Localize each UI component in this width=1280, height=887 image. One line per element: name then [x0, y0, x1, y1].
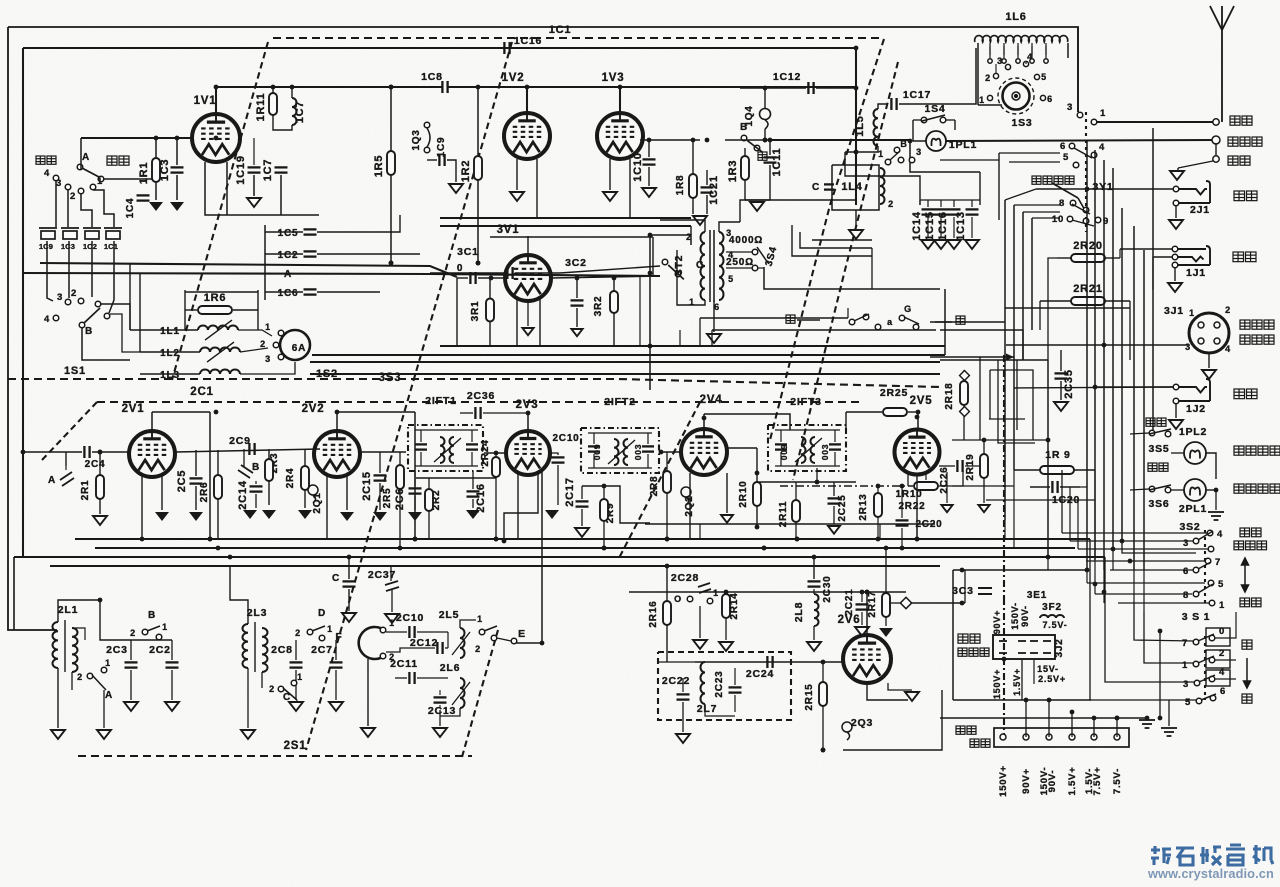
wire — [1133, 570, 1135, 602]
junction — [900, 546, 905, 551]
chinese label dixian — [1228, 156, 1250, 165]
wire — [1077, 27, 1079, 112]
contact 1Q3 — [424, 122, 430, 128]
junction — [1102, 590, 1107, 595]
junction — [389, 261, 394, 266]
wire — [725, 618, 727, 640]
wire — [261, 672, 263, 688]
capacitor 2C-ift1b — [466, 444, 478, 449]
wire — [1118, 602, 1209, 604]
wire vertical right of 1C12 — [855, 50, 857, 205]
wire — [845, 146, 878, 152]
chinese label erji — [1234, 191, 1257, 201]
wire — [1025, 700, 1027, 737]
contact 3 — [65, 184, 71, 190]
junction — [228, 555, 233, 560]
contact 3S6 — [1165, 487, 1171, 493]
wire 3V1 cathode lead — [539, 299, 541, 346]
contact — [291, 680, 297, 686]
wire — [240, 348, 268, 352]
wire — [460, 620, 476, 628]
chinese label sanbo — [107, 156, 129, 165]
wire — [1047, 300, 1049, 360]
wire — [265, 253, 303, 255]
contact — [913, 324, 919, 330]
junction — [526, 411, 531, 416]
wire top border bus — [8, 27, 1078, 112]
lever — [1074, 148, 1092, 158]
dashed slant unit2 left — [42, 402, 97, 460]
wire long bus y263 — [40, 263, 457, 277]
wire — [1144, 612, 1193, 663]
wire tap 1L6 — [1017, 46, 1019, 58]
wire — [846, 411, 882, 413]
wire — [877, 517, 879, 539]
inductor 1L6 — [975, 36, 1068, 42]
trimmer 1C2 — [83, 228, 101, 239]
wire — [712, 329, 936, 331]
wire — [855, 152, 857, 165]
dashed chassis unit2 bottom — [78, 755, 472, 757]
wire — [460, 412, 473, 414]
wire — [816, 87, 856, 89]
wire 3V1 plate bus — [490, 236, 653, 238]
wire plate bus to 1C8 — [216, 86, 442, 88]
wire — [477, 87, 479, 156]
wire — [415, 429, 478, 431]
wire — [527, 413, 529, 431]
wire long line to antenna post — [946, 140, 1216, 141]
wire — [1086, 570, 1088, 583]
contact 2 — [1209, 657, 1215, 663]
cap 3C3 — [978, 588, 992, 594]
contact 1S4 — [940, 117, 946, 123]
wire — [769, 165, 771, 200]
contact 3S5 — [1165, 431, 1171, 437]
junction — [214, 136, 219, 141]
wire — [940, 200, 942, 207]
slug — [452, 632, 470, 655]
resistor 1R5 — [387, 151, 395, 175]
cap 2C37 tilted — [385, 581, 399, 591]
junction — [724, 590, 729, 595]
junction — [763, 86, 768, 91]
wire — [588, 432, 652, 434]
contact 4b — [53, 315, 59, 321]
wire — [472, 499, 474, 508]
capacitor 1C-1L4 — [824, 184, 834, 189]
ground — [642, 188, 656, 197]
trimmer A — [60, 472, 74, 486]
lever — [1072, 204, 1090, 214]
wire — [979, 172, 981, 205]
wire — [581, 486, 583, 499]
wire — [1105, 257, 1120, 259]
capacitor 2C22 — [677, 694, 690, 699]
wire — [780, 452, 782, 466]
inductor 2L5 — [460, 628, 465, 658]
wire — [390, 175, 392, 263]
junction — [489, 276, 494, 281]
capacitor B — [507, 267, 512, 279]
wire 1L4 box — [832, 165, 879, 210]
ground — [575, 528, 589, 537]
capacitor 1C7 — [275, 167, 288, 172]
contact 2J1 — [1173, 200, 1179, 206]
chinese label huatong — [1233, 252, 1256, 262]
ground — [828, 526, 840, 534]
junction — [216, 546, 221, 551]
lever — [484, 626, 497, 631]
crystal 3Y1 — [1052, 183, 1086, 212]
contact 1J1 — [1172, 254, 1178, 260]
plug pin — [1018, 640, 1026, 642]
wire grid node 1V1 — [81, 137, 192, 139]
capacitor 1C5 — [304, 229, 317, 234]
wire bus vertical — [1143, 250, 1145, 570]
wire — [489, 278, 491, 299]
inductor 2L3a — [242, 624, 248, 668]
wire — [1094, 470, 1096, 560]
resistor 2R4 — [301, 466, 309, 490]
node diamond — [900, 597, 911, 608]
lever — [312, 626, 325, 631]
junction — [1092, 716, 1097, 721]
wire — [758, 267, 764, 269]
contact B — [142, 629, 148, 635]
wire — [80, 138, 82, 170]
chinese label shoufa — [1240, 528, 1261, 537]
wire — [939, 465, 955, 467]
dashed gang 3S2 — [1204, 530, 1206, 605]
resistor 1R1 — [152, 158, 160, 182]
ground — [941, 505, 952, 512]
ground — [124, 702, 138, 711]
ground — [934, 240, 948, 249]
contact G — [899, 315, 905, 321]
wire 2V6 grid line — [695, 661, 843, 663]
lamp 2PL1 — [1184, 479, 1206, 501]
resistor 1R11 — [269, 93, 277, 115]
wire — [417, 677, 448, 679]
wire — [1060, 350, 1062, 371]
wire — [415, 465, 478, 467]
wire — [253, 138, 255, 165]
tube 2V3 — [506, 431, 550, 475]
wire — [734, 695, 736, 712]
wire — [240, 86, 310, 88]
dashed gang link 1S3 — [1085, 112, 1087, 232]
wire — [629, 159, 631, 218]
wire bus vertical — [1094, 150, 1096, 560]
wire — [813, 589, 815, 594]
wire — [253, 175, 255, 196]
wire — [536, 159, 538, 218]
contact A pivot — [77, 164, 83, 170]
junction — [494, 451, 499, 456]
resistor 1R6 — [198, 306, 232, 314]
ground — [342, 613, 356, 622]
wire — [176, 138, 178, 165]
wire — [940, 217, 942, 238]
wire — [795, 482, 797, 500]
wire — [1060, 486, 1080, 488]
wire long bus y273 — [23, 273, 660, 276]
inductor ift3a — [801, 437, 806, 463]
junction — [960, 601, 965, 606]
wire — [901, 528, 903, 548]
junction — [795, 537, 800, 542]
wire — [944, 289, 946, 355]
wire — [652, 237, 654, 276]
wire — [484, 452, 506, 454]
contact E — [511, 638, 517, 644]
resistor 2R17 — [882, 593, 890, 617]
ground — [262, 510, 276, 519]
wire — [734, 668, 736, 685]
ground — [721, 515, 733, 523]
wire — [1071, 712, 1073, 737]
wire — [209, 412, 211, 539]
junction — [1115, 716, 1120, 721]
junction — [755, 471, 760, 476]
tube 2V5 — [895, 430, 940, 475]
capacitor 1C13 — [966, 209, 979, 214]
capacitor 2C9 — [249, 443, 254, 455]
wire — [130, 640, 132, 660]
capacitor 1C20 — [1052, 481, 1057, 493]
wire bus y539 — [75, 538, 1090, 540]
contact tap — [988, 59, 992, 63]
contact 10 — [1067, 216, 1073, 222]
wire — [1004, 520, 1006, 539]
lever — [890, 151, 900, 160]
wire — [477, 180, 479, 263]
capacitor 1C15 — [935, 209, 948, 214]
capacitor 2C25 — [828, 498, 841, 503]
junction — [795, 537, 800, 542]
wire — [938, 470, 963, 486]
wire — [1005, 189, 1036, 200]
ground — [693, 216, 707, 225]
wire — [141, 475, 143, 539]
capacitor 2C-ift2a — [588, 446, 600, 451]
watermark glyph 5 — [1253, 845, 1273, 864]
dashed box 2IFT2 — [581, 428, 659, 473]
lever — [92, 675, 106, 690]
wire tap — [989, 43, 991, 55]
wire drop 2 — [81, 194, 92, 227]
wire bus vertical — [1047, 360, 1049, 557]
junction — [1046, 438, 1051, 443]
junction — [1128, 559, 1133, 564]
chinese label tianxianzhu — [1228, 137, 1262, 146]
resistor 2R20 — [1071, 254, 1105, 262]
capacitor 2C21 — [856, 604, 869, 609]
ground — [750, 202, 764, 211]
wire 3V1 grid right — [551, 276, 660, 278]
junction — [98, 450, 103, 455]
capacitor 2C35 — [1055, 373, 1068, 378]
wire — [184, 290, 186, 330]
wire — [335, 670, 337, 700]
ground — [1054, 402, 1068, 411]
wire — [129, 263, 131, 330]
wire — [1112, 548, 1114, 570]
resistor 2R18 — [960, 381, 968, 405]
wire bus vertical — [1112, 168, 1114, 548]
capacitor 2C14 — [250, 486, 263, 491]
junction — [1115, 716, 1120, 721]
junction — [1102, 343, 1107, 348]
wire — [834, 452, 836, 466]
wire — [1086, 140, 1088, 150]
wire — [295, 640, 297, 660]
wire — [57, 668, 59, 700]
inductor ift3b — [811, 437, 816, 463]
contact o — [687, 596, 693, 602]
plug pin — [999, 640, 1007, 642]
junction — [335, 410, 340, 415]
wire — [140, 351, 200, 353]
dashed chassis 1C1 top — [273, 37, 884, 39]
wire IFT3 out — [845, 412, 847, 430]
wire — [1206, 489, 1216, 491]
wire — [917, 412, 919, 429]
wire bus y308 — [1005, 307, 1130, 309]
wire — [847, 308, 849, 318]
wire bus y548 — [95, 547, 1075, 549]
wire — [226, 162, 228, 215]
rotary 1S3 — [998, 78, 1034, 114]
watermark glyph 1 — [1151, 846, 1171, 865]
chinese label mic1 — [1240, 320, 1274, 329]
wire — [399, 452, 401, 465]
dashed chassis unit2 top — [97, 401, 860, 403]
contact — [875, 324, 881, 330]
junction — [982, 438, 987, 443]
wire — [946, 119, 955, 121]
contact — [1083, 218, 1089, 224]
wire 3V1 cathode lead — [516, 299, 518, 346]
contact tap — [1030, 59, 1034, 63]
capacitor 2C36 — [475, 407, 480, 419]
wire — [361, 451, 406, 453]
wire — [650, 235, 691, 245]
wire — [557, 465, 559, 505]
contact 1J2 — [1173, 384, 1179, 390]
wire plate to IFT3 — [704, 414, 790, 430]
junction — [398, 546, 403, 551]
wire — [877, 486, 879, 493]
wire — [576, 308, 578, 327]
wire — [65, 466, 67, 470]
contact 1 — [479, 629, 485, 635]
wire — [1103, 592, 1105, 603]
wire — [337, 411, 415, 413]
wire — [725, 139, 770, 141]
junction — [647, 138, 652, 143]
contact 4 — [1209, 676, 1215, 682]
contact 4 — [53, 175, 59, 181]
capacitor 1C16 — [504, 42, 509, 54]
junction — [476, 85, 481, 90]
junction — [1085, 187, 1090, 192]
wire — [346, 475, 348, 510]
ground — [385, 614, 399, 623]
wire — [1057, 257, 1071, 259]
capacitor 2C-ift2b — [642, 446, 654, 451]
wire — [954, 120, 956, 130]
capacitor 2C7 — [330, 662, 343, 667]
wire — [916, 524, 918, 539]
capacitor 2C3 — [125, 662, 138, 667]
junction — [290, 85, 295, 90]
wire — [1116, 718, 1118, 737]
wire — [161, 475, 163, 510]
junction — [900, 484, 905, 489]
chinese label tou — [758, 152, 767, 160]
coupler 2Q1 — [308, 485, 318, 503]
wire — [952, 439, 1048, 441]
wire — [1095, 386, 1173, 388]
contact B — [894, 147, 900, 153]
ground — [433, 728, 447, 737]
ground — [879, 628, 893, 637]
lever — [1199, 675, 1215, 682]
ground — [97, 730, 111, 739]
wire — [913, 119, 921, 121]
junction — [915, 415, 920, 420]
contact — [909, 157, 915, 163]
capacitor 2C17 — [576, 501, 589, 506]
capacitor 2C10b — [409, 626, 414, 638]
core 2L1 — [64, 620, 66, 672]
wire — [593, 433, 595, 444]
wire — [965, 465, 984, 467]
chinese label mic2 — [1240, 335, 1274, 344]
wire — [1171, 452, 1184, 454]
wire 1R6 bridge — [185, 291, 258, 293]
contact — [87, 673, 93, 679]
wire — [740, 87, 806, 89]
wire — [390, 87, 392, 151]
inductor 2L8 — [814, 594, 819, 626]
plug pin — [1030, 640, 1038, 642]
wire — [516, 159, 518, 190]
wire — [82, 328, 130, 360]
lever — [1198, 562, 1211, 569]
junction — [884, 546, 889, 551]
wire — [953, 200, 955, 207]
wire — [155, 138, 157, 158]
wire — [1077, 500, 1079, 549]
junction — [21, 450, 26, 455]
inductor 2L7 — [701, 662, 706, 704]
wire cap block left — [264, 225, 266, 300]
wire — [101, 304, 130, 330]
junction — [575, 276, 580, 281]
wire vertical x650 — [649, 235, 651, 390]
wire tap — [1003, 43, 1005, 55]
chinese label tianxian — [1230, 116, 1252, 125]
wire — [639, 276, 641, 346]
wire — [1175, 404, 1177, 418]
wire — [1134, 602, 1193, 641]
junction — [602, 546, 607, 551]
wire — [1014, 469, 1040, 471]
inductor 2L1b — [72, 628, 78, 672]
